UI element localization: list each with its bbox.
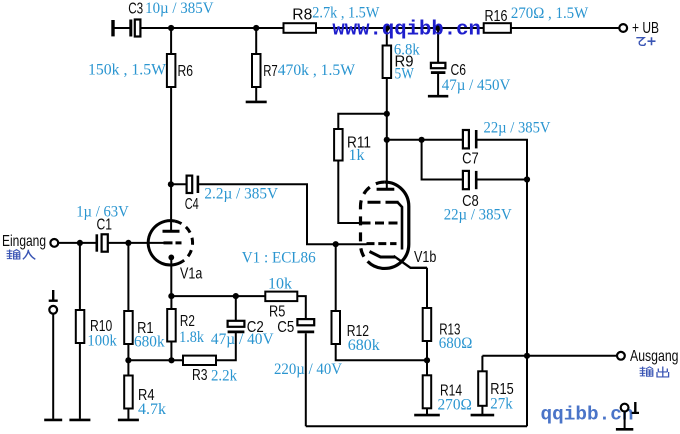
svg-text:680Ω: 680Ω [439,335,473,352]
capacitor C7 [387,130,527,180]
resistor R15 [471,356,495,415]
wire output line [482,355,617,357]
resistor R12 [332,244,428,360]
capacitor C3 [113,20,140,37]
terminal + UB [619,24,627,32]
resistor R11 [334,114,387,223]
svg-text:100k: 100k [87,333,116,350]
svg-text:10µ / 385V: 10µ / 385V [145,0,214,17]
terminal Ausgang output [617,352,625,360]
capacitor C1 [97,234,166,251]
svg-text:Eingang: Eingang [2,233,46,250]
svg-text:R5: R5 [269,303,285,320]
wire cathode node row [171,257,265,296]
svg-text:C4: C4 [185,196,199,213]
svg-text:R2: R2 [180,313,195,330]
resistor R10 [69,243,90,420]
svg-text:1k: 1k [349,147,365,164]
junction V1a cathode / R2 [168,293,174,299]
svg-text:470k , 1.5W: 470k , 1.5W [278,62,356,79]
resistor R7 [246,28,267,102]
svg-text:www.qqibb.cn: www.qqibb.cn [332,19,481,42]
chinese shuru (input) [7,249,36,259]
svg-text:2.2k: 2.2k [211,368,237,385]
svg-text:22µ / 385V: 22µ / 385V [484,120,551,137]
junction C2 top [233,293,239,299]
junction C7 / C8 left [419,137,425,143]
junction R1 / R4 [125,357,131,363]
svg-text:C5: C5 [277,319,294,336]
junction R2 / R3 [168,357,174,363]
capacitor C4 [171,176,366,245]
svg-text:R6: R6 [178,63,194,80]
svg-text:1.8k: 1.8k [179,329,204,346]
svg-text:+ UB: + UB [632,20,659,37]
svg-text:47µ / 450V: 47µ / 450V [442,77,511,94]
svg-text:V1b: V1b [414,249,436,266]
junction B+ rail / R9 [384,25,390,31]
svg-text:C1: C1 [97,217,113,234]
svg-text:680k: 680k [348,337,380,354]
svg-text:150k , 1.5W: 150k , 1.5W [88,62,167,79]
capacitor C5 [297,319,314,426]
resistor R6 [167,28,176,231]
junction V1b g1 / R12 [333,241,339,247]
resistor R5 [265,292,306,320]
junction V1a anode / C4 [168,181,174,187]
svg-text:10k: 10k [268,276,292,293]
svg-text:C7: C7 [462,150,479,167]
svg-text:27k: 27k [490,395,512,412]
junction B+ rail / R7 [253,25,259,31]
resistor R8 [284,23,317,33]
terminal output ground [616,402,639,429]
resistor R4 [118,360,139,420]
svg-text:270Ω , 1.5W: 270Ω , 1.5W [511,5,589,22]
svg-text:R8: R8 [292,7,312,24]
resistor R13 [423,268,432,361]
triode V1a [148,221,192,265]
resistor R1 [124,243,133,360]
svg-text:R3: R3 [192,367,208,384]
terminal Eingang input [50,239,95,247]
svg-text:Ausgang: Ausgang [630,348,679,365]
svg-text:V1a: V1a [180,266,202,283]
chinese yi+ (B+ label) [636,37,655,45]
junction B+ rail / C6 [435,25,441,31]
svg-text:V1 : ECL86: V1 : ECL86 [242,249,316,266]
junction input / R10 [77,240,83,246]
svg-text:4.7k: 4.7k [138,401,166,418]
wire bottom feedback rail [306,356,527,427]
svg-text:22µ / 385V: 22µ / 385V [444,206,512,223]
svg-text:R16: R16 [485,8,508,25]
svg-text:680k: 680k [134,334,165,351]
svg-text:2.2µ / 385V: 2.2µ / 385V [204,186,278,203]
junction R13 / R14 [424,357,430,363]
resistor R9 [383,28,392,189]
capacitor C2 [228,296,245,332]
capacitor C6 [428,28,448,96]
wire top B+ rail [113,27,619,29]
capacitor C8 [422,140,527,356]
junction C8 right / feedback column [524,176,530,182]
resistor R14 [414,360,440,415]
svg-text:qqibb.cn: qqibb.cn [541,404,634,426]
resistor R3 [183,332,236,365]
terminal input ground [44,290,62,420]
svg-text:5W: 5W [395,66,415,83]
chinese shuchu (output) [640,367,669,378]
pentode V1b [361,182,428,268]
resistor R16 [484,23,511,33]
resistor R2 [167,296,176,360]
svg-text:C3: C3 [128,1,143,18]
svg-text:220µ / 40V: 220µ / 40V [274,361,342,378]
junction R9 / C7 branch [384,137,390,143]
junction C1 / R1 / V1a grid [125,240,131,246]
junction output node [524,353,530,359]
wire bias node row [128,359,183,361]
svg-text:R7: R7 [263,63,278,80]
svg-text:47µ / 40V: 47µ / 40V [211,331,274,348]
junction B+ rail / R6 [168,25,174,31]
svg-text:270Ω: 270Ω [438,396,473,413]
junction R9 / R11 [384,111,390,117]
